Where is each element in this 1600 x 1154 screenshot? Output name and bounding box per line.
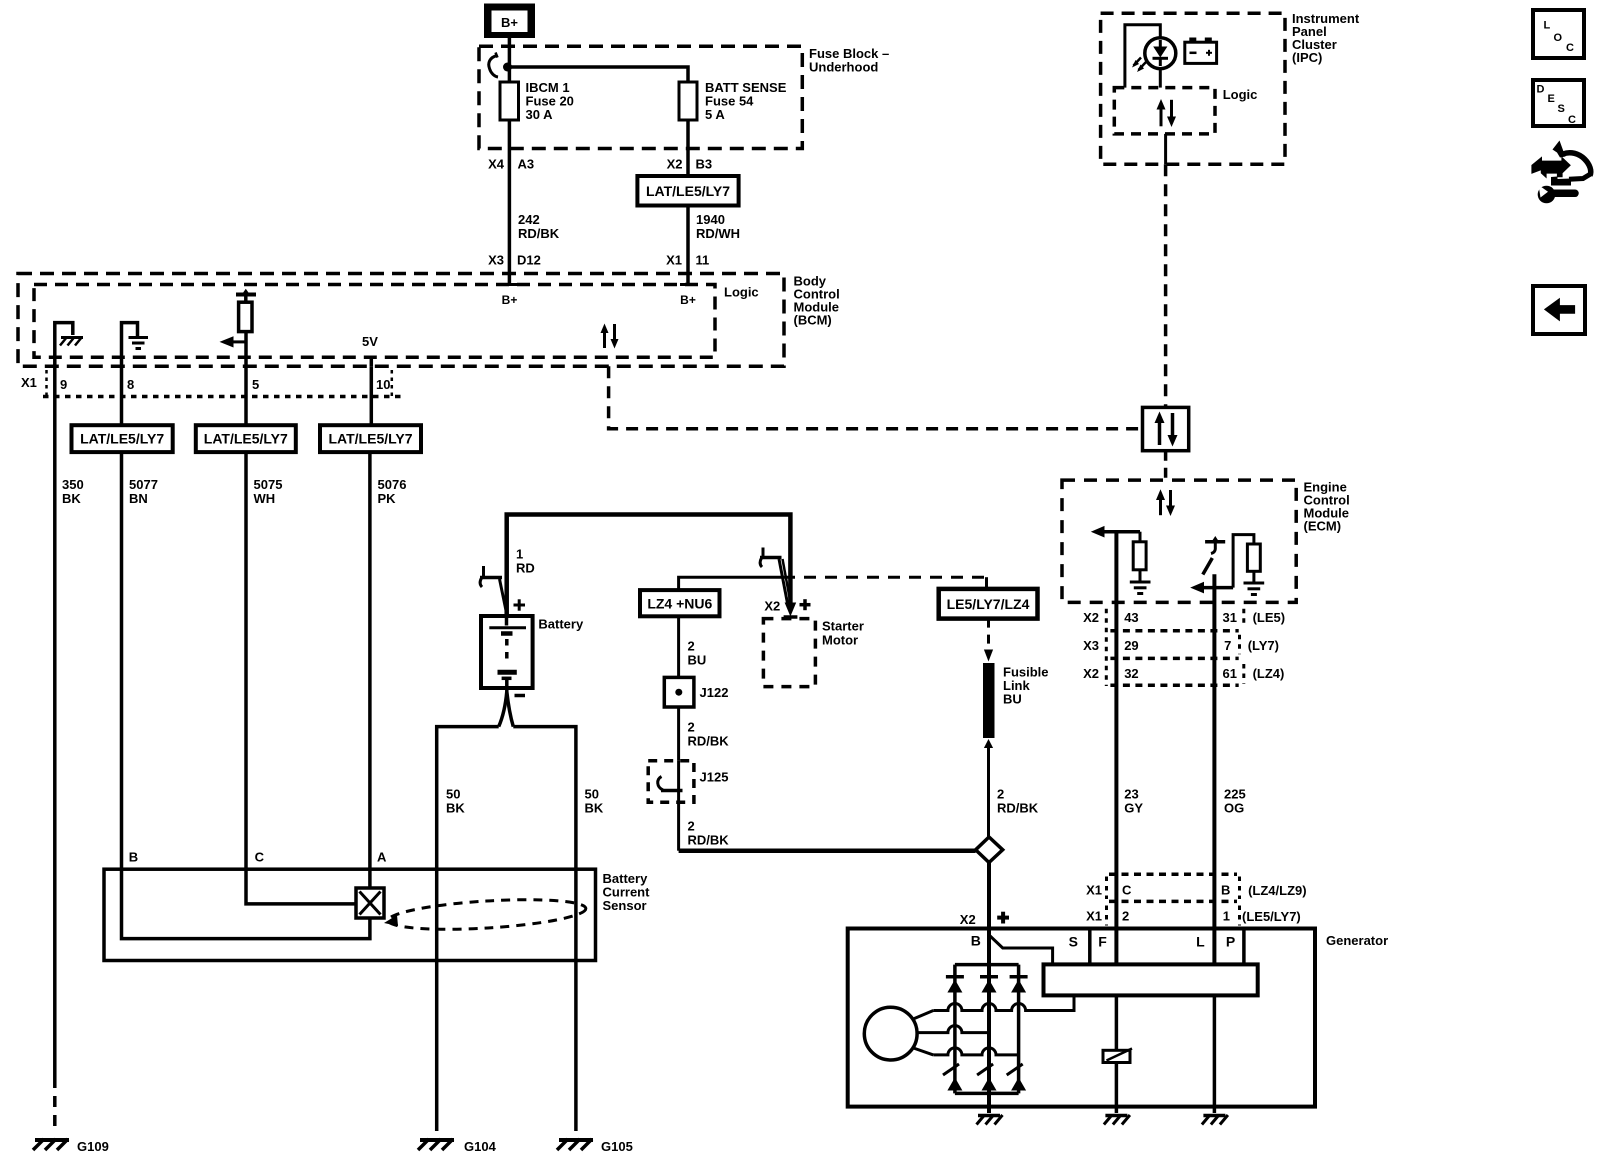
ground G109 [33, 1139, 109, 1154]
BCM serial data arrows symbol [601, 324, 619, 349]
svg-text:X4: X4 [488, 157, 505, 172]
pin 9 label [60, 377, 67, 392]
sensor internal wire C run [246, 869, 356, 904]
svg-text:J125: J125 [700, 770, 729, 785]
svg-text:L: L [1196, 934, 1205, 950]
wire 2 RD/BK to diamond junction [989, 746, 1039, 837]
back arrow navigation box [1533, 286, 1585, 334]
generator pin stub P [1242, 929, 1246, 965]
svg-text:2: 2 [688, 819, 695, 834]
fusible link BU [983, 663, 1049, 748]
svg-text:50: 50 [446, 787, 460, 802]
wire 23 GY from ECM to generator F [1116, 532, 1143, 965]
svg-text:B+: B+ [501, 15, 518, 30]
wire fuse1 to BCM pin D12 [508, 120, 512, 285]
svg-text:X2: X2 [1083, 666, 1099, 681]
svg-text:32: 32 [1124, 666, 1138, 681]
option label LAT/LE5/LY7 box 2 [196, 425, 296, 452]
connector X1 pin 11 labels [666, 253, 709, 268]
svg-text:X1: X1 [666, 253, 682, 268]
IPC charge indicator LED wire loop [1125, 25, 1160, 88]
svg-text:Motor: Motor [822, 633, 858, 648]
dashed wire below LE5 box with arrow [984, 619, 993, 662]
B+ battery positive voltage symbol [484, 4, 535, 39]
wire 5077 BN from BCM pin 8 [122, 366, 158, 506]
rectifier diode bottom 1 [943, 1064, 962, 1091]
generator pin stub S [1088, 929, 1092, 965]
svg-text:B: B [129, 850, 138, 865]
svg-text:7: 7 [1224, 638, 1231, 653]
generator rectifier bridge rails [955, 929, 1019, 1094]
BCM output arrow left [220, 336, 247, 347]
svg-text:J122: J122 [700, 685, 729, 700]
option label LAT/LE5/LY7 on wire 1940 [637, 176, 738, 206]
svg-text:X1: X1 [21, 375, 37, 390]
svg-text:5 A: 5 A [705, 107, 725, 122]
svg-text:RD/WH: RD/WH [696, 226, 740, 241]
svg-text:(LE5/LY7): (LE5/LY7) [1242, 909, 1301, 924]
option label LZ4 +NU6 box [640, 590, 720, 616]
svg-text:LAT/LE5/LY7: LAT/LE5/LY7 [646, 183, 730, 199]
svg-text:B3: B3 [696, 157, 713, 172]
battery [481, 616, 584, 692]
svg-text:Underhood: Underhood [809, 60, 878, 75]
svg-text:BU: BU [688, 653, 707, 668]
dashed wire junction box to ECM [1164, 451, 1168, 480]
ground G105 [557, 1139, 633, 1154]
connector X4 pin A3 labels [488, 157, 534, 172]
splice J122 [664, 677, 728, 707]
svg-text:X1: X1 [1086, 909, 1102, 924]
wire 5075 WH from BCM pin 5 [246, 366, 282, 506]
svg-text:WH: WH [254, 491, 276, 506]
svg-text:X3: X3 [488, 253, 504, 268]
wire fuse2 down [686, 120, 690, 176]
BCM earth ground internal [122, 323, 149, 367]
svg-text:2: 2 [997, 787, 1004, 802]
wire from LZ4+NU6 top to starter junction solid then dashed [679, 577, 987, 590]
ground G104 [418, 1139, 497, 1154]
svg-text:LAT/LE5/LY7: LAT/LE5/LY7 [80, 431, 164, 447]
starter motor dashed box [763, 619, 864, 687]
svg-text:31: 31 [1223, 610, 1237, 625]
svg-text:C: C [1568, 114, 1576, 126]
serial data junction box with arrows [1143, 407, 1189, 450]
fuse F20 IBCM 1 30A [500, 80, 574, 122]
generator pin labels B S F L P [971, 933, 1235, 950]
svg-text:11: 11 [696, 253, 710, 268]
starter terminal labels X2 + [764, 599, 810, 614]
pin A label at sensor [377, 850, 387, 865]
svg-text:LZ4 +NU6: LZ4 +NU6 [647, 596, 712, 612]
IPC serial data arrows symbol [1157, 99, 1177, 127]
wire 2 RD/BK lower to diamond [679, 802, 976, 850]
svg-text:8: 8 [127, 377, 134, 392]
diagnostic tool icon double arrow wrench [1532, 141, 1591, 204]
svg-text:5V: 5V [362, 334, 378, 349]
ECM sense line arrow [1190, 535, 1254, 594]
starter feed arrow down [784, 603, 798, 618]
ECM connector row X2 43 31 LE5 [1083, 610, 1285, 625]
wire PK continues to sensor pin A [368, 452, 372, 888]
svg-text:X1: X1 [1086, 883, 1102, 898]
svg-text:Sensor: Sensor [603, 898, 647, 913]
svg-text:A: A [377, 850, 387, 865]
svg-text:10: 10 [376, 377, 390, 392]
generator voltage regulator box [1044, 964, 1258, 995]
svg-text:Generator: Generator [1326, 933, 1388, 948]
pin 10 label [376, 377, 390, 392]
ECM internal resistor 1 to ground [1130, 532, 1151, 594]
svg-text:G104: G104 [464, 1139, 497, 1154]
svg-text:(LZ4/LZ9): (LZ4/LZ9) [1248, 883, 1307, 898]
stator phase line 3 with humps [912, 1048, 1019, 1055]
svg-text:P: P [1226, 934, 1235, 950]
svg-text:2: 2 [688, 720, 695, 735]
stator phase line 2 with hump [917, 1026, 989, 1033]
svg-text:E: E [1548, 93, 1555, 105]
rectifier diode top 3 [1010, 977, 1028, 993]
svg-text:X2: X2 [1083, 610, 1099, 625]
svg-text:BK: BK [446, 801, 465, 816]
option label LAT/LE5/LY7 box 3 [320, 425, 421, 452]
ECM connector rows dashed grid [1106, 609, 1244, 686]
generator internal B sense line to regulator [988, 934, 1053, 964]
crimp splice at starter motor [760, 548, 790, 607]
stator winding circle [864, 1007, 917, 1060]
svg-text:X3: X3 [1083, 638, 1099, 653]
svg-text:(LZ4): (LZ4) [1253, 666, 1285, 681]
wire 50 BK right leg to G105 [513, 727, 604, 1131]
generator F internal ground [1104, 1115, 1130, 1125]
wire from junction to fuse 2 [508, 67, 689, 82]
rectifier diode bottom 3 [1007, 1064, 1026, 1091]
svg-text:23: 23 [1124, 787, 1138, 802]
wire 5076 PK from BCM pin 10 [371, 366, 406, 506]
IPC battery icon [1185, 38, 1217, 64]
svg-text:S: S [1558, 103, 1565, 115]
DESC navigation box [1533, 80, 1584, 126]
svg-text:5077: 5077 [129, 477, 158, 492]
svg-text:C: C [1566, 42, 1574, 54]
svg-text:RD/BK: RD/BK [688, 734, 730, 749]
BCM internal resistor with crimp top [236, 289, 256, 367]
svg-text:O: O [1554, 32, 1563, 44]
node junction at B+ feed [503, 63, 512, 72]
svg-text:B: B [1221, 883, 1230, 898]
sensor element X box [356, 888, 384, 918]
svg-text:Battery: Battery [538, 617, 584, 632]
option label LE5/LY7/LZ4 box [939, 589, 1038, 619]
svg-text:5076: 5076 [378, 477, 407, 492]
svg-text:D12: D12 [517, 253, 541, 268]
svg-text:X2: X2 [667, 157, 683, 172]
wire label 1940 RD/WH [696, 212, 740, 241]
svg-text:50: 50 [585, 787, 599, 802]
IPC serial data wire down [1164, 134, 1167, 408]
svg-text:5075: 5075 [254, 477, 283, 492]
wire 2 BU [679, 616, 707, 677]
splice J125 dashed box with crimp [648, 761, 728, 803]
svg-text:5: 5 [252, 377, 259, 392]
wire from B+ to fuse 1 [508, 38, 512, 82]
connector X1 strip below BCM [21, 370, 402, 397]
rectifier diode top 2 [980, 977, 998, 993]
svg-text:Starter: Starter [822, 619, 864, 634]
svg-text:1940: 1940 [696, 212, 725, 227]
generator connector row X1 C B LZ4/LZ9 [1086, 874, 1307, 901]
svg-text:G109: G109 [77, 1139, 109, 1154]
sensor internal wire B run [122, 869, 370, 938]
BCM serial data dashed wire to ECM [609, 366, 1143, 429]
svg-text:X2: X2 [764, 599, 780, 614]
ECM connector row X3 29 7 LY7 [1083, 638, 1279, 653]
svg-text:LE5/LY7/LZ4: LE5/LY7/LZ4 [947, 596, 1030, 612]
node 5V reference [362, 334, 378, 366]
svg-text:(IPC): (IPC) [1292, 50, 1322, 65]
node diamond junction [976, 837, 1003, 863]
node B+ terminal 2 in BCM [680, 285, 696, 308]
BCM logic inner dashed box [34, 285, 759, 358]
svg-text:350: 350 [62, 477, 84, 492]
wire 350 BK from BCM pin 9 to G109 [55, 366, 84, 1129]
svg-text:43: 43 [1124, 610, 1138, 625]
LED charge indicator [1132, 38, 1176, 72]
node B+ terminal 1 in BCM [502, 285, 518, 308]
svg-text:225: 225 [1224, 787, 1246, 802]
svg-text:BU: BU [1003, 692, 1022, 707]
svg-text:D: D [1537, 84, 1545, 96]
connector X2 pin B3 labels [667, 157, 713, 172]
wire WH continues to sensor pin C [244, 452, 248, 869]
svg-text:L: L [1544, 20, 1551, 32]
battery positive sign [514, 599, 526, 610]
svg-text:(ECM): (ECM) [1304, 519, 1342, 534]
wire 2 RD/BK upper [679, 707, 730, 761]
svg-text:30 A: 30 A [526, 107, 554, 122]
pin B label at sensor [129, 850, 138, 865]
svg-text:2: 2 [1122, 909, 1129, 924]
battery negative sign [515, 694, 526, 698]
svg-text:A3: A3 [518, 157, 535, 172]
svg-text:RD/BK: RD/BK [688, 833, 730, 848]
ECM field control output arrow [1091, 526, 1140, 538]
svg-text:Logic: Logic [1223, 87, 1258, 102]
option label LAT/LE5/LY7 box 1 [72, 425, 173, 452]
svg-text:2: 2 [688, 639, 695, 654]
ECM internal resistor 2 to ground [1244, 544, 1265, 595]
svg-text:BN: BN [129, 491, 148, 506]
pin 8 label [127, 377, 134, 392]
svg-text:1: 1 [516, 547, 523, 562]
generator B internal ground [977, 1093, 1003, 1124]
wire label 242 RD/BK [518, 212, 560, 241]
svg-text:9: 9 [60, 377, 67, 392]
svg-text:Logic: Logic [724, 285, 759, 300]
generator box [848, 929, 1388, 1107]
svg-text:RD: RD [516, 561, 535, 576]
sensor dashed current loop ellipse [384, 895, 587, 934]
IPC logic inner dashed box [1114, 87, 1257, 134]
fuse block underhood dashed box [479, 46, 889, 149]
instrument panel cluster IPC dashed box [1101, 11, 1360, 164]
svg-text:(LE5): (LE5) [1253, 610, 1286, 625]
svg-text:242: 242 [518, 212, 540, 227]
BCM chassis ground internal [55, 323, 83, 367]
svg-text:BK: BK [62, 491, 81, 506]
svg-text:S: S [1069, 934, 1078, 950]
svg-text:1: 1 [1223, 909, 1230, 924]
wire BN continues to sensor pin B [120, 452, 124, 869]
stator phase line 1 with humps [912, 995, 1074, 1019]
wire label box to BCM [686, 206, 690, 285]
rectifier diode bottom 2 [977, 1064, 996, 1091]
pin 5 label [252, 377, 259, 392]
svg-text:LAT/LE5/LY7: LAT/LE5/LY7 [328, 431, 412, 447]
svg-text:X2: X2 [960, 912, 976, 927]
svg-text:RD/BK: RD/BK [518, 226, 560, 241]
generator L wire through to ground [1202, 995, 1228, 1124]
fuse F54 BATT SENSE 5A [679, 80, 787, 122]
svg-text:B+: B+ [502, 293, 518, 307]
svg-text:61: 61 [1223, 666, 1237, 681]
crimp splice at battery positive [480, 566, 506, 612]
svg-text:BK: BK [585, 801, 604, 816]
svg-text:(LY7): (LY7) [1248, 638, 1279, 653]
engine control module ECM dashed box [1062, 480, 1350, 603]
generator F circuit solid state element [1103, 995, 1132, 1113]
svg-text:C: C [1122, 883, 1132, 898]
svg-text:F: F [1098, 934, 1107, 950]
wire 1 RD horizontal battery feed [507, 515, 791, 617]
wire 50 BK left leg to G104 [437, 727, 499, 1131]
battery negative Y split wires [499, 692, 514, 727]
svg-text:G105: G105 [601, 1139, 633, 1154]
svg-text:LAT/LE5/LY7: LAT/LE5/LY7 [204, 431, 288, 447]
svg-text:PK: PK [378, 491, 397, 506]
ECM internal switch with crimp [1203, 536, 1225, 575]
battery current sensor box [104, 869, 650, 960]
svg-text:B+: B+ [680, 293, 696, 307]
ECM serial data arrows symbol [1156, 489, 1175, 516]
svg-text:(BCM): (BCM) [794, 313, 832, 328]
wire 225 OG from ECM to generator L [1214, 574, 1245, 964]
svg-text:C: C [255, 850, 265, 865]
body control module BCM outer dashed box [18, 274, 840, 367]
ECM connector row X2 32 61 LZ4 [1083, 666, 1284, 681]
svg-text:RD/BK: RD/BK [997, 801, 1039, 816]
svg-text:B: B [971, 933, 981, 949]
crimp splice symbol at B+ junction [489, 53, 498, 78]
wire diamond to generator B [987, 863, 991, 929]
connector X3 pin D12 labels [488, 253, 541, 268]
rectifier diode top 1 [946, 977, 964, 993]
generator terminal labels X2 + [960, 912, 1009, 927]
pin C label at sensor [255, 850, 265, 865]
LOC navigation box [1533, 10, 1584, 58]
svg-text:OG: OG [1224, 801, 1244, 816]
svg-text:29: 29 [1124, 638, 1138, 653]
svg-text:GY: GY [1124, 801, 1143, 816]
generator connector row X1 2 1 LE5/LY7 [1086, 906, 1301, 926]
